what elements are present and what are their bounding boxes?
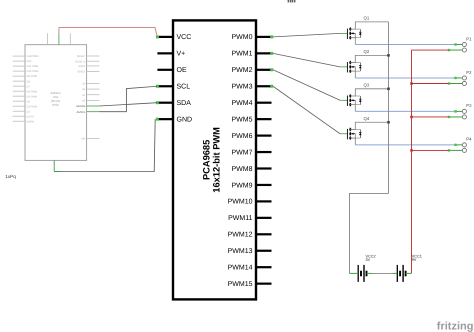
svg-text:V+: V+ xyxy=(177,51,186,58)
svg-text:SCL: SCL xyxy=(177,84,191,91)
svg-text:D1/TX: D1/TX xyxy=(27,115,35,118)
svg-text:D0/RX: D0/RX xyxy=(27,120,35,123)
svg-text:PWM6: PWM6 xyxy=(232,133,253,140)
svg-text:D12: D12 xyxy=(27,60,32,63)
svg-text:Q2: Q2 xyxy=(364,49,370,54)
svg-text:1xPq: 1xPq xyxy=(5,174,16,179)
svg-text:PWM14: PWM14 xyxy=(228,265,253,272)
svg-text:A3: A3 xyxy=(82,100,86,103)
svg-text:A0: A0 xyxy=(82,83,86,86)
svg-text:VIN: VIN xyxy=(81,138,85,141)
svg-text:PWM11: PWM11 xyxy=(228,215,252,222)
svg-text:PWM0: PWM0 xyxy=(232,34,253,41)
svg-text:D8: D8 xyxy=(27,80,31,83)
svg-text:PWM13: PWM13 xyxy=(228,248,253,255)
svg-text:SDA: SDA xyxy=(177,100,192,107)
svg-text:A4/SDA: A4/SDA xyxy=(76,105,85,108)
svg-text:PCA9685: PCA9685 xyxy=(202,140,212,180)
svg-text:ICSP: ICSP xyxy=(52,103,59,107)
svg-text:9V: 9V xyxy=(412,258,417,262)
svg-text:PWM4: PWM4 xyxy=(232,100,253,107)
svg-text:D13/PWM: D13/PWM xyxy=(27,55,39,58)
svg-text:D7: D7 xyxy=(27,85,31,88)
svg-text:D5 PWM: D5 PWM xyxy=(27,95,37,98)
svg-text:PWM7: PWM7 xyxy=(232,149,253,156)
svg-text:A5/SCL: A5/SCL xyxy=(76,111,85,114)
svg-text:PWM5: PWM5 xyxy=(232,116,253,123)
svg-text:P1: P1 xyxy=(466,36,472,41)
svg-text:PWM10: PWM10 xyxy=(228,199,253,206)
svg-text:D11 PWM: D11 PWM xyxy=(27,65,39,68)
svg-text:Q3: Q3 xyxy=(364,83,370,88)
svg-text:PWM9: PWM9 xyxy=(232,182,253,189)
svg-text:AREF: AREF xyxy=(78,65,85,68)
svg-text:16x12-bit PWM: 16x12-bit PWM xyxy=(212,127,222,193)
svg-text:3V: 3V xyxy=(366,258,371,262)
svg-text:Q1: Q1 xyxy=(364,16,370,21)
svg-text:RESET: RESET xyxy=(77,55,86,58)
svg-text:P2: P2 xyxy=(466,70,472,75)
svg-text:D6 PWM: D6 PWM xyxy=(27,90,37,93)
svg-text:D10 PWM: D10 PWM xyxy=(27,70,39,73)
svg-text:A2: A2 xyxy=(82,94,86,97)
svg-text:PWM15: PWM15 xyxy=(228,281,253,288)
svg-text:PWM1: PWM1 xyxy=(232,51,253,58)
svg-text:D3 PWM: D3 PWM xyxy=(27,105,37,108)
svg-text:OE: OE xyxy=(177,67,187,74)
svg-text:PWM2: PWM2 xyxy=(232,67,253,74)
svg-text:Q4: Q4 xyxy=(364,116,370,121)
svg-text:fritzing: fritzing xyxy=(437,321,474,332)
svg-text:RESET2: RESET2 xyxy=(75,60,86,63)
svg-text:PWM3: PWM3 xyxy=(232,84,253,91)
svg-text:PWM12: PWM12 xyxy=(228,232,253,239)
svg-text:GND: GND xyxy=(177,116,193,123)
svg-text:PWM8: PWM8 xyxy=(232,166,253,173)
svg-text:A1: A1 xyxy=(82,88,86,91)
svg-text:P3: P3 xyxy=(466,103,472,108)
svg-text:D9 PWM: D9 PWM xyxy=(27,75,37,78)
svg-text:P4: P4 xyxy=(466,137,472,142)
svg-text:D2: D2 xyxy=(27,110,31,113)
svg-text:D4: D4 xyxy=(27,100,31,103)
svg-text:VCC: VCC xyxy=(177,34,192,41)
svg-text:IOREF: IOREF xyxy=(77,71,85,74)
